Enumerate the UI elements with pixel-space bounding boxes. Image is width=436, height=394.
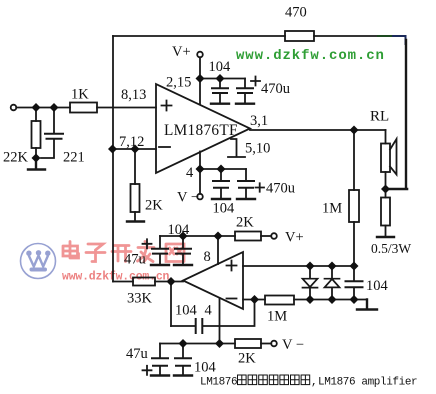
wire pin4 to V- terminal xyxy=(199,169,201,194)
resistor 1M vertical with leads xyxy=(353,130,355,266)
watermark chinese char kai xyxy=(112,246,131,262)
resistor 2K vplus with lead xyxy=(235,232,261,241)
wire left column to 33K xyxy=(113,281,133,283)
wire top feedback colored corner xyxy=(378,36,406,44)
svg-text:0.5/3W: 0.5/3W xyxy=(371,241,411,256)
wire feedback cap to inverting node xyxy=(203,300,255,327)
wire V+ rail opamp2 xyxy=(160,235,235,237)
V- lower terminal xyxy=(271,341,277,347)
node rail bottom 104 xyxy=(350,295,359,304)
node 2K inverting xyxy=(131,145,140,154)
node 104 vminus xyxy=(179,339,188,348)
pin 5,10 mute stub and ground xyxy=(228,139,245,157)
V- mid terminal xyxy=(197,194,203,200)
ground below 2K first xyxy=(127,220,144,222)
opamp1 plus sign xyxy=(162,101,172,111)
plus sign 47u vplus xyxy=(143,239,152,248)
watermark chinese char dian xyxy=(63,242,79,259)
resistor 1K xyxy=(70,103,97,113)
svg-text:470u: 470u xyxy=(261,81,290,97)
capacitor 104 vplus plates xyxy=(175,249,191,254)
node pin4 V- xyxy=(196,165,205,174)
capacitor 470u pin4 plates xyxy=(238,181,254,188)
plus sign 470u pin4 xyxy=(256,183,265,191)
plus sign 470u top xyxy=(251,77,260,86)
node pin8 vplus xyxy=(214,232,223,241)
diode D2 up leads xyxy=(331,266,333,300)
capacitor 104 pin4 leads xyxy=(220,169,222,198)
svg-text:V −: V − xyxy=(177,190,199,206)
svg-text:104: 104 xyxy=(209,59,232,75)
wire speaker to node xyxy=(385,172,387,189)
node opamp2 output xyxy=(167,277,176,286)
svg-text:8: 8 xyxy=(204,249,211,265)
svg-text:2K: 2K xyxy=(238,351,256,367)
svg-text:3,1: 3,1 xyxy=(250,113,268,129)
ground below 470u top xyxy=(236,102,254,104)
svg-text:2K: 2K xyxy=(236,215,254,231)
svg-text:www.dzkfw.com.cn: www.dzkfw.com.cn xyxy=(236,48,385,64)
node input B xyxy=(50,103,59,112)
resistor 2K vminus with lead xyxy=(235,339,261,348)
capacitor 104 top leads xyxy=(219,79,221,103)
capacitor 104 vplus leads xyxy=(182,236,184,264)
node rail bottom D2 xyxy=(328,295,337,304)
svg-text:104: 104 xyxy=(168,222,191,238)
V+ top terminal xyxy=(197,52,203,58)
node inverting cap opamp2 xyxy=(250,295,259,304)
capacitor 47u vplus plates xyxy=(152,249,168,254)
capacitor 104 top plates xyxy=(212,88,228,93)
capacitor 104 across rails leads xyxy=(353,266,355,300)
diode D1 down leads xyxy=(309,266,311,300)
wire top feedback left segment xyxy=(113,35,285,37)
svg-text:LM1876 amplifier: LM1876 amplifier xyxy=(318,377,417,389)
resistor 1M horizontal xyxy=(265,296,294,305)
node 104 top xyxy=(216,74,225,83)
resistor 22K with leads xyxy=(35,108,37,159)
op-amp U1 LM1876TF triangle xyxy=(156,84,250,173)
ground below 470u pin4 xyxy=(237,198,255,200)
wire V- decoupling rail xyxy=(200,168,246,170)
wire to feedback cap xyxy=(171,325,195,327)
capacitor 47u vplus leads xyxy=(159,236,161,264)
capacitor 470u top leads xyxy=(244,79,246,103)
svg-text:RL: RL xyxy=(370,109,389,125)
svg-text:33K: 33K xyxy=(127,291,153,307)
pin 4 stub opamp1 xyxy=(199,152,201,170)
node rail bottom D1 xyxy=(306,295,315,304)
node 22K 221 junction xyxy=(32,154,41,163)
capacitor 104 pin4 plates xyxy=(213,181,229,188)
ground below 104 top xyxy=(211,102,229,104)
ground below 104 vplus xyxy=(174,264,192,266)
wire opamp1 output xyxy=(250,129,386,131)
svg-text:1M: 1M xyxy=(322,201,342,217)
capacitor 470u top plates xyxy=(237,88,253,93)
wire inverting rail opamp2 right xyxy=(294,299,367,301)
svg-text:22K: 22K xyxy=(3,150,29,166)
svg-text:2K: 2K xyxy=(145,198,163,214)
wire V- rail opamp2 xyxy=(160,343,235,345)
opamp2 minus sign xyxy=(227,298,237,300)
ground right of rail xyxy=(357,300,377,310)
node output xyxy=(350,126,359,135)
svg-text:4: 4 xyxy=(205,303,213,319)
capacitor 221 leads xyxy=(41,108,54,159)
svg-text:5,10: 5,10 xyxy=(245,141,270,157)
svg-text:1K: 1K xyxy=(71,87,89,103)
node 104 vplus xyxy=(179,232,188,241)
opamp1 minus sign xyxy=(159,146,170,148)
speaker horn xyxy=(390,139,397,175)
wire noninverting rail opamp2 xyxy=(243,265,354,267)
resistor 33K xyxy=(133,278,155,286)
pin 8 stub opamp2 xyxy=(217,236,219,264)
wire output down to speaker xyxy=(385,130,387,144)
svg-text:470u: 470u xyxy=(266,181,295,197)
resistor 2K first with leads xyxy=(134,149,136,220)
svg-text:,: , xyxy=(311,377,318,389)
node V+ stub xyxy=(196,74,205,83)
capacitor 104 series plates xyxy=(196,319,203,333)
svg-text:47u: 47u xyxy=(126,346,148,362)
opamp2 plus sign xyxy=(227,261,237,271)
node input A xyxy=(32,103,41,112)
node 104 pin4 xyxy=(217,165,226,174)
node pin4 vminus xyxy=(215,339,224,348)
wire output node down xyxy=(170,282,172,327)
wire thick speaker node to right vertical xyxy=(386,188,408,191)
svg-text:2,15: 2,15 xyxy=(166,75,191,91)
resistor 0.5/3W with leads xyxy=(385,189,387,236)
input terminal xyxy=(11,105,17,111)
wire inverting rail opamp2 left xyxy=(243,299,265,301)
wire left vertical feedback column xyxy=(112,36,114,282)
capacitor 104 vminus leads xyxy=(182,344,184,375)
svg-text:V −: V − xyxy=(282,337,304,353)
capacitor 470u pin4 leads xyxy=(245,169,247,198)
V+ lower terminal xyxy=(271,233,277,239)
svg-text:LM1876: LM1876 xyxy=(200,377,237,389)
svg-text:4: 4 xyxy=(186,165,194,181)
ground below 47u vplus xyxy=(151,264,169,266)
node rail top 104 xyxy=(350,262,359,271)
svg-text:7,12: 7,12 xyxy=(119,134,144,150)
resistor 470 top xyxy=(285,31,314,41)
node rail top D2 xyxy=(328,262,337,271)
watermark chinese char zi xyxy=(86,244,105,262)
node speaker bottom xyxy=(381,185,390,194)
node rail top D1 xyxy=(306,262,315,271)
watermark logo circle W xyxy=(21,244,56,279)
svg-text:LM1876TF: LM1876TF xyxy=(164,122,238,139)
svg-text:221: 221 xyxy=(63,150,85,166)
capacitor 47u vminus plates xyxy=(152,358,168,366)
svg-text:104: 104 xyxy=(366,278,389,294)
svg-text:V+: V+ xyxy=(172,44,191,60)
wire input to 1K xyxy=(16,107,70,109)
svg-text:8,13: 8,13 xyxy=(121,87,146,103)
capacitor 104 across rails plates xyxy=(346,281,363,287)
node feedback inverting xyxy=(108,145,117,154)
plus sign 47u vminus xyxy=(143,366,152,375)
svg-text:470: 470 xyxy=(285,5,307,21)
wire V+ to pin 2,15 xyxy=(199,57,201,104)
diode D2 triangle and bar xyxy=(325,279,340,288)
ground below 0.5/3W xyxy=(377,236,394,238)
svg-text:104: 104 xyxy=(194,360,217,376)
svg-text:104: 104 xyxy=(175,303,198,319)
diode D1 triangle and bar xyxy=(303,279,318,288)
svg-text:47u: 47u xyxy=(124,252,146,268)
op-amp U2 second half triangle xyxy=(183,252,243,309)
pin 4 stub opamp2 xyxy=(219,298,221,344)
ground below 104 pin4 xyxy=(212,198,230,200)
capacitor 104 vminus plates xyxy=(175,358,191,366)
watermark chinese char wang xyxy=(166,244,184,262)
svg-text:104: 104 xyxy=(213,201,236,217)
svg-text:V+: V+ xyxy=(285,230,304,246)
ground below 104 vminus xyxy=(174,374,192,376)
capacitor 221 plates xyxy=(45,134,63,139)
watermark chinese char fa xyxy=(138,242,155,262)
wire right vertical down to speaker node xyxy=(405,40,407,188)
wire V+ decoupling rail xyxy=(200,78,245,80)
ground below 47u vminus xyxy=(151,374,169,376)
wire opamp2 output to 33K xyxy=(155,281,183,283)
wire 1K to opamp plus input xyxy=(97,107,156,109)
caption cjk blocks xyxy=(238,375,310,385)
speaker RL box xyxy=(381,144,390,173)
svg-text:1M: 1M xyxy=(267,309,287,325)
capacitor 47u vminus leads xyxy=(159,344,161,375)
wire top feedback right segment xyxy=(314,35,378,37)
wire inverting input opamp1 xyxy=(113,148,156,150)
ground below 22K xyxy=(28,158,45,170)
